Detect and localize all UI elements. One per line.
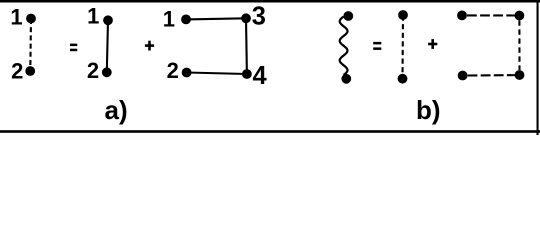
svg-text:2: 2: [167, 58, 179, 83]
svg-text:2: 2: [87, 58, 99, 83]
svg-text:a): a): [105, 95, 128, 125]
svg-text:1: 1: [87, 4, 99, 29]
svg-text:1: 1: [163, 6, 175, 31]
svg-text:3: 3: [252, 2, 266, 30]
svg-text:4: 4: [253, 62, 268, 90]
svg-text:2: 2: [11, 58, 23, 83]
svg-text:b): b): [416, 95, 441, 125]
svg-text:1: 1: [10, 4, 22, 29]
